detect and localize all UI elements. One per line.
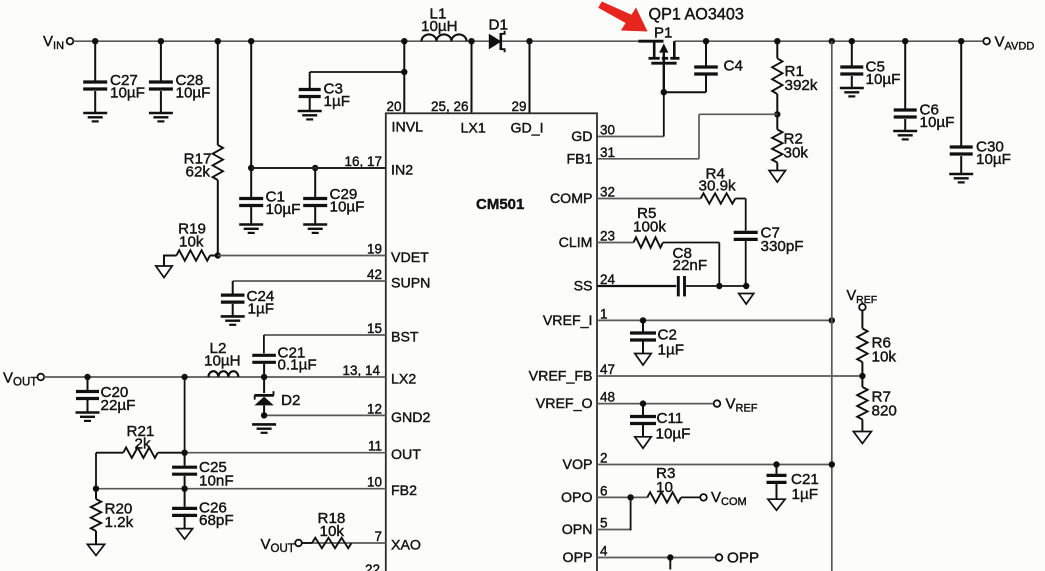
resistor R1 bbox=[776, 41, 778, 58]
diode D2 (schottky) bbox=[263, 377, 265, 393]
node VCOM (terminal) bbox=[700, 494, 707, 501]
wire VAVDD rail (P1 drain to VAVDD) bbox=[674, 40, 983, 42]
junction LX2 at C21/D2 bbox=[261, 374, 267, 380]
junction VDET/R17/R19 bbox=[215, 252, 221, 258]
svg-text:32: 32 bbox=[600, 185, 615, 200]
svg-text:OUT: OUT bbox=[391, 447, 421, 463]
capacitor C5 bbox=[851, 41, 853, 65]
svg-text:VREF_FB: VREF_FB bbox=[529, 369, 593, 385]
wire IN2 (pin 16,17) bbox=[251, 167, 386, 169]
svg-text:2: 2 bbox=[600, 451, 608, 466]
ground (triangle) below C26 bbox=[177, 529, 193, 540]
svg-text:5: 5 bbox=[600, 516, 608, 531]
ground (earth) below C29 bbox=[303, 223, 327, 226]
ground (triangle) below C21 bbox=[768, 499, 785, 510]
capacitor C11 bbox=[642, 404, 644, 415]
junction top rail at LX1 bbox=[468, 38, 474, 44]
capacitor C1 bbox=[250, 168, 252, 197]
wire R19 left to ground bbox=[164, 255, 176, 257]
svg-text:1µF: 1µF bbox=[658, 342, 684, 359]
junction top rail at C27 bbox=[92, 38, 98, 44]
resistor R7 bbox=[861, 376, 863, 387]
capacitor C26 bbox=[184, 489, 186, 507]
capacitor C20 bbox=[87, 377, 89, 390]
capacitor C28 bbox=[160, 41, 162, 80]
resistor R19 bbox=[176, 250, 210, 260]
svg-text:10µF: 10µF bbox=[920, 114, 955, 131]
svg-text:330pF: 330pF bbox=[761, 238, 804, 255]
junction SS/R5 bbox=[716, 283, 722, 289]
wire VREF_I (pin 1) bbox=[597, 319, 832, 321]
ground (earth) below C5 bbox=[840, 87, 864, 90]
svg-text:SS: SS bbox=[574, 279, 593, 295]
svg-text:10k: 10k bbox=[872, 349, 897, 366]
node VAVDD (output supply terminal) bbox=[983, 38, 990, 45]
svg-text:CLIM: CLIM bbox=[559, 235, 593, 251]
svg-text:22µF: 22µF bbox=[101, 397, 136, 414]
ground (triangle) below R19 bbox=[156, 266, 172, 278]
svg-text:OPP: OPP bbox=[563, 550, 593, 566]
wire BST (pin 15) bbox=[264, 334, 386, 336]
inductor L1 bbox=[422, 34, 467, 41]
junction top rail at R17 bbox=[215, 38, 221, 44]
wire COMP (pin 32) bbox=[597, 198, 701, 200]
svg-text:0.1µF: 0.1µF bbox=[278, 357, 317, 374]
svg-text:GND2: GND2 bbox=[391, 410, 431, 426]
junction VREF_I at VREF rail bbox=[829, 317, 835, 323]
ground (earth) below C3 bbox=[298, 110, 322, 113]
svg-text:20: 20 bbox=[386, 99, 401, 114]
svg-text:GD: GD bbox=[571, 129, 592, 145]
capacitor C7 bbox=[734, 231, 758, 234]
svg-text:2k: 2k bbox=[135, 436, 151, 453]
wire FB2 (pin 10) bbox=[96, 488, 386, 490]
junction FB2/R20 bbox=[93, 486, 99, 492]
ground (earth) below C30 bbox=[949, 173, 973, 176]
wire R4 to C7 bbox=[735, 198, 745, 200]
svg-text:820: 820 bbox=[872, 403, 897, 420]
wire GD_I riser (pin 29) bbox=[529, 41, 531, 113]
svg-text:C4: C4 bbox=[724, 58, 743, 75]
svg-text:VCOM: VCOM bbox=[711, 489, 747, 508]
svg-text:62k: 62k bbox=[186, 164, 211, 181]
svg-text:47: 47 bbox=[600, 362, 615, 377]
svg-text:10µH: 10µH bbox=[204, 353, 241, 370]
svg-text:22nF: 22nF bbox=[673, 257, 708, 274]
svg-text:48: 48 bbox=[600, 390, 615, 405]
junction top rail at INVL/L1 bbox=[401, 38, 407, 44]
svg-text:OPN: OPN bbox=[562, 522, 593, 538]
diode D1 (schottky) bbox=[489, 35, 500, 49]
junction VOP at C21 bbox=[773, 461, 779, 467]
svg-text:INVL: INVL bbox=[392, 120, 424, 136]
junction SS/C7/ground bbox=[743, 283, 749, 289]
svg-text:FB2: FB2 bbox=[391, 483, 417, 499]
ground (triangle) below R20 bbox=[87, 544, 104, 555]
wire GND2 (pin 12) bbox=[264, 414, 386, 416]
svg-text:VOUT: VOUT bbox=[3, 370, 37, 389]
svg-text:VAVDD: VAVDD bbox=[995, 34, 1035, 53]
svg-text:10µF: 10µF bbox=[656, 426, 691, 443]
wire SUPN (pin 42) bbox=[233, 280, 386, 282]
svg-text:VOP: VOP bbox=[563, 457, 593, 473]
ground (earth) below C28 bbox=[149, 112, 173, 115]
svg-text:15: 15 bbox=[367, 321, 382, 336]
resistor R3 bbox=[647, 492, 681, 502]
svg-text:VREF: VREF bbox=[726, 396, 758, 415]
svg-text:1µF: 1µF bbox=[248, 301, 274, 318]
junction OPP stub bbox=[667, 554, 673, 560]
svg-text:10µF: 10µF bbox=[976, 151, 1011, 168]
junction FB2/C25/C26 bbox=[181, 486, 187, 492]
wire VDET (pin 19) bbox=[218, 255, 386, 257]
junction VREF_I at C2 bbox=[640, 317, 646, 323]
resistor R6 bbox=[861, 310, 863, 329]
svg-text:30k: 30k bbox=[784, 145, 809, 162]
resistor R5 bbox=[634, 237, 663, 247]
svg-text:30: 30 bbox=[600, 123, 615, 138]
svg-text:6: 6 bbox=[600, 483, 608, 498]
capacitor C30 bbox=[960, 41, 962, 145]
svg-text:LX2: LX2 bbox=[391, 372, 416, 388]
wire P1 gate node to C4 bbox=[664, 91, 706, 93]
svg-text:P1: P1 bbox=[654, 25, 672, 42]
capacitor C4 bbox=[705, 41, 707, 66]
svg-text:10k: 10k bbox=[320, 523, 345, 540]
svg-text:11: 11 bbox=[368, 439, 382, 454]
svg-text:C11: C11 bbox=[657, 410, 684, 427]
wire VIN rail (top, VIN to P1 source) bbox=[73, 40, 639, 42]
svg-text:BST: BST bbox=[391, 330, 419, 346]
ground (earth) below C6 bbox=[893, 130, 917, 133]
capacitor C21 (BST) bbox=[252, 354, 276, 357]
wire LX2 node down to OUT node bbox=[184, 377, 186, 453]
svg-text:XAO: XAO bbox=[391, 538, 421, 554]
junction FB1/R1/R2 bbox=[774, 111, 780, 117]
capacitor C24 bbox=[232, 281, 234, 294]
wire BST to C21 bbox=[263, 335, 265, 353]
wire OPP (pin 4) bbox=[597, 557, 716, 559]
svg-text:30.9k: 30.9k bbox=[699, 178, 737, 195]
svg-text:OPO: OPO bbox=[561, 490, 593, 506]
svg-text:19: 19 bbox=[367, 242, 382, 257]
wire VOP (pin 2) bbox=[597, 464, 832, 466]
wire top rail to R17 bbox=[217, 41, 219, 145]
ground (earth) below C27 bbox=[83, 112, 107, 115]
svg-text:1µF: 1µF bbox=[792, 486, 818, 503]
wire OUT (pin 11) bbox=[185, 452, 386, 454]
resistor R20 bbox=[95, 489, 97, 499]
wire R21 right to OUT node bbox=[158, 452, 185, 454]
wire R18 to XAO bbox=[302, 542, 312, 544]
ground (triangle) below R2 bbox=[769, 171, 785, 183]
capacitor C29 bbox=[314, 168, 316, 197]
junction VREF_O at C11 bbox=[640, 400, 646, 406]
svg-text:1µF: 1µF bbox=[324, 93, 350, 110]
junction P1 gate node bbox=[661, 89, 667, 95]
svg-text:10µH: 10µH bbox=[421, 18, 458, 35]
junction INVL riser at C3 wire bbox=[401, 69, 407, 75]
svg-text:13, 14: 13, 14 bbox=[342, 363, 380, 378]
capacitor C21 (VOP) bbox=[776, 465, 778, 474]
resistor R17 bbox=[213, 145, 223, 180]
svg-text:100k: 100k bbox=[633, 219, 666, 236]
svg-text:10µF: 10µF bbox=[866, 71, 901, 88]
wire OPN (pin 5) bbox=[597, 529, 631, 531]
junction VOUT at C20 bbox=[84, 374, 90, 380]
capacitor C27 bbox=[94, 41, 96, 80]
svg-text:10: 10 bbox=[656, 479, 673, 496]
wire LX1 riser (pin 25,26) bbox=[471, 41, 473, 113]
svg-text:D2: D2 bbox=[281, 392, 300, 409]
svg-text:10µF: 10µF bbox=[110, 85, 145, 102]
ground (earth) below C24 bbox=[221, 315, 245, 318]
junction top rail at C1 branch bbox=[248, 38, 254, 44]
wire R17 to VDET node bbox=[217, 180, 219, 256]
svg-text:VREF_I: VREF_I bbox=[543, 313, 593, 329]
svg-text:68pF: 68pF bbox=[199, 512, 234, 529]
wire R21 left to FB2 bbox=[96, 452, 123, 454]
wire LX2 (pin 13,14) bbox=[44, 376, 386, 378]
svg-text:25, 26: 25, 26 bbox=[431, 99, 469, 114]
ground (earth) below C20 bbox=[76, 411, 100, 414]
resistor R21 bbox=[123, 448, 158, 458]
junction LX2 at OUT branch bbox=[181, 374, 187, 380]
svg-text:23: 23 bbox=[600, 229, 615, 244]
junction GND2/D2 bbox=[261, 412, 267, 418]
svg-text:VOUT: VOUT bbox=[261, 536, 295, 555]
capacitor C8 (series in SS) bbox=[677, 276, 680, 296]
svg-text:29: 29 bbox=[511, 99, 526, 114]
wire VREF_FB (pin 47) bbox=[597, 375, 862, 377]
wire INVL riser (pin 20) bbox=[403, 41, 405, 113]
svg-text:7: 7 bbox=[374, 529, 382, 544]
capacitor C6 bbox=[904, 41, 906, 108]
capacitor C25 bbox=[184, 453, 186, 466]
wire top rail to IN2 line bbox=[250, 41, 252, 168]
wire CLIM (pin 23) bbox=[597, 242, 634, 244]
ground (earth) below D2 bbox=[252, 423, 276, 426]
svg-text:12: 12 bbox=[367, 401, 382, 416]
svg-text:24: 24 bbox=[600, 272, 616, 287]
wire VREF vertical rail bbox=[831, 41, 833, 571]
resistor R4 bbox=[701, 193, 736, 203]
capacitor C3 bbox=[309, 72, 311, 88]
junction top rail at C5 bbox=[849, 38, 855, 44]
capacitor C2 bbox=[642, 320, 644, 331]
annotation red arrow pointing at P1 bbox=[598, 2, 647, 32]
svg-text:GD_I: GD_I bbox=[511, 121, 544, 137]
junction top rail at GD_I bbox=[526, 38, 532, 44]
ground (earth) below C1 bbox=[239, 223, 263, 226]
svg-text:10µF: 10µF bbox=[176, 85, 211, 102]
wire R5 to SS node bbox=[663, 242, 719, 244]
svg-text:QP1 AO3403: QP1 AO3403 bbox=[649, 6, 744, 24]
ground (triangle) below C7/SS bbox=[739, 294, 754, 305]
svg-text:10µF: 10µF bbox=[266, 201, 301, 218]
junction top rail at C28 bbox=[158, 38, 164, 44]
svg-text:LX1: LX1 bbox=[461, 121, 486, 137]
svg-text:VIN: VIN bbox=[43, 33, 64, 52]
junction OPO/OPN bbox=[627, 494, 633, 500]
wire FB1 pin to divider bbox=[597, 158, 699, 160]
junction top rail at C6 bbox=[902, 38, 908, 44]
junction top rail at VREF rail bbox=[829, 38, 835, 44]
svg-text:31: 31 bbox=[600, 145, 615, 160]
svg-text:10µF: 10µF bbox=[330, 199, 365, 216]
svg-text:1: 1 bbox=[600, 306, 608, 321]
svg-text:VREF_O: VREF_O bbox=[536, 396, 593, 412]
junction IN2 at C29 bbox=[312, 165, 318, 171]
junction top rail at C4 bbox=[703, 38, 709, 44]
node VREF (output terminal) bbox=[714, 400, 721, 407]
wire C3 to INVL riser bbox=[310, 71, 405, 73]
junction OUT/C25/R21 bbox=[181, 450, 187, 456]
svg-text:42: 42 bbox=[367, 267, 382, 282]
svg-text:SUPN: SUPN bbox=[391, 276, 430, 292]
svg-text:OPP: OPP bbox=[727, 550, 759, 567]
resistor R2 bbox=[776, 114, 778, 129]
junction VREF_FB/R6/R7 bbox=[859, 373, 865, 379]
inductor L2 bbox=[208, 371, 238, 377]
wire R3 to VCOM bbox=[681, 496, 700, 498]
wire C8 to ground node bbox=[685, 285, 747, 287]
junction IN2 at C1 bbox=[248, 165, 254, 171]
svg-text:COMP: COMP bbox=[550, 191, 593, 207]
junction top rail at R1 bbox=[774, 38, 780, 44]
svg-text:10: 10 bbox=[367, 475, 382, 490]
transistor P1 (PMOS AO3403) bbox=[638, 40, 663, 43]
wire OPO (pin 6) bbox=[597, 496, 647, 498]
wire SS (pin 24) bbox=[597, 285, 676, 287]
ground (triangle) below C2 bbox=[635, 354, 651, 366]
node OPP (terminal) bbox=[716, 554, 723, 561]
svg-text:IN2: IN2 bbox=[391, 163, 413, 179]
svg-text:4: 4 bbox=[600, 544, 608, 559]
svg-text:CM501: CM501 bbox=[476, 196, 524, 213]
junction VOP at VREF rail bbox=[829, 461, 835, 467]
wire GD pin to P1 gate bbox=[597, 136, 664, 138]
svg-text:VDET: VDET bbox=[391, 250, 429, 266]
ground (triangle) below R7 bbox=[853, 432, 871, 444]
svg-text:22: 22 bbox=[365, 562, 380, 571]
junction top rail at C30 bbox=[958, 38, 964, 44]
svg-text:D1: D1 bbox=[489, 17, 508, 34]
wire XAO (pin 7) bbox=[302, 542, 386, 544]
svg-text:10nF: 10nF bbox=[199, 473, 234, 490]
svg-text:10k: 10k bbox=[179, 234, 204, 251]
wire VREF_O (pin 48) bbox=[597, 403, 714, 405]
resistor R18 bbox=[312, 538, 352, 548]
ground (triangle) below C11 bbox=[635, 437, 651, 449]
svg-text:FB1: FB1 bbox=[566, 151, 592, 167]
svg-text:16, 17: 16, 17 bbox=[344, 154, 382, 169]
wire R19 to R17/VDET junction bbox=[210, 255, 218, 257]
svg-text:392k: 392k bbox=[785, 77, 818, 94]
svg-text:1.2k: 1.2k bbox=[105, 514, 134, 531]
IC U1 CM501 body bbox=[386, 113, 597, 571]
